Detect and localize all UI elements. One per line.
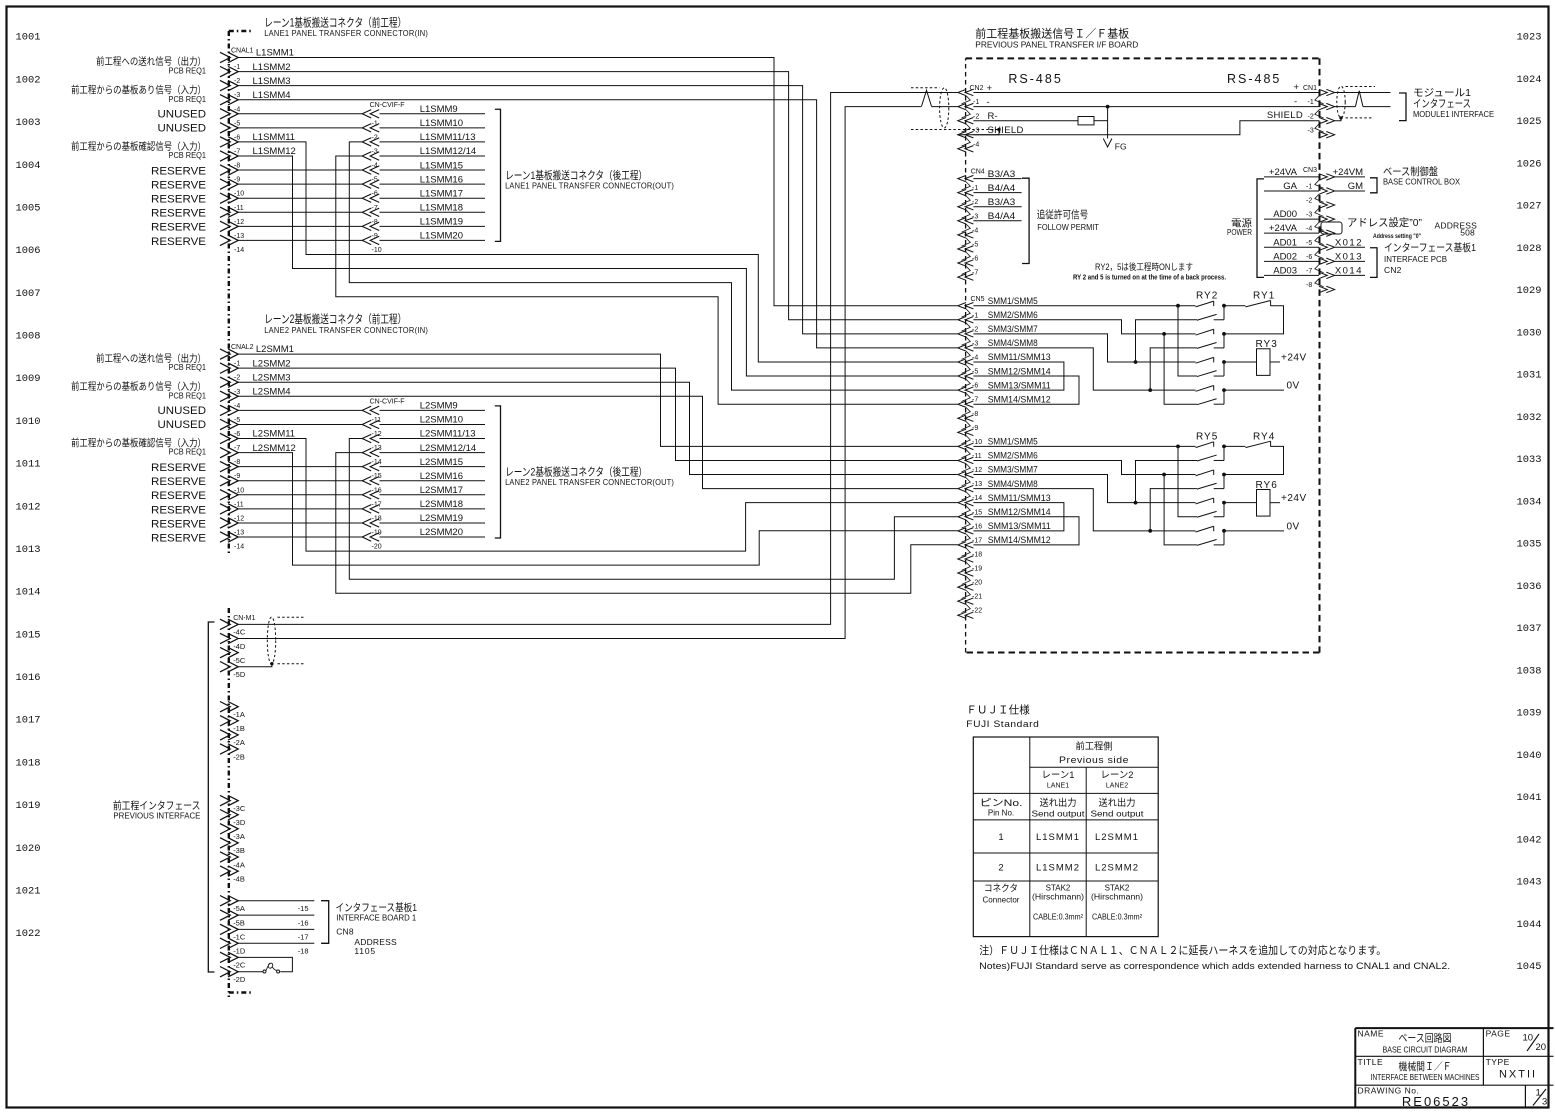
svg-text:UNUSED: UNUSED (158, 405, 207, 417)
svg-text:UNUSED: UNUSED (158, 123, 207, 135)
connector CN2 pin numbers (973, 99, 979, 148)
connector CN4 label (971, 169, 985, 176)
relay RY5 label (1196, 431, 1218, 442)
svg-text:ＦＵＪＩ仕様: ＦＵＪＩ仕様 (966, 703, 1030, 717)
svg-text:-2: -2 (1306, 198, 1312, 205)
shield dashed leads at CN-M1 (270, 617, 305, 665)
svg-text:1034: 1034 (1517, 497, 1542, 508)
svg-text:SHIELD: SHIELD (1267, 110, 1303, 121)
wire CNAL2-10 RESERVE stub (238, 494, 363, 496)
svg-text:送れ出力: 送れ出力 (1099, 797, 1136, 809)
wire CNAL1-13 RESERVE stub (238, 239, 363, 241)
feed wire +24V side a (1136, 320, 1198, 362)
address setting box (1321, 222, 1342, 234)
svg-text:-11: -11 (234, 205, 244, 212)
svg-text:RESERVE: RESERVE (151, 236, 206, 248)
LANE2 header label (264, 312, 428, 335)
svg-text:LANE2: LANE2 (1106, 782, 1128, 789)
svg-text:-2D: -2D (233, 975, 246, 984)
svg-text:1021: 1021 (16, 887, 41, 898)
svg-text:RS-485: RS-485 (1008, 72, 1062, 86)
wire CNAL2-4 UNUSED stub (238, 409, 363, 411)
svg-text:RY3: RY3 (1256, 339, 1278, 350)
svg-text:X012: X012 (1335, 237, 1363, 248)
svg-text:-20: -20 (372, 544, 382, 551)
wire SMM1/SMM5 row to RY5 (973, 445, 1195, 449)
svg-text:-1: -1 (973, 99, 979, 106)
svg-text:-4: -4 (1306, 226, 1312, 233)
svg-text:1022: 1022 (16, 929, 41, 940)
svg-text:-16: -16 (298, 918, 309, 927)
svg-text:CNAL1: CNAL1 (231, 48, 254, 55)
svg-text:-11: -11 (234, 501, 244, 508)
svg-text:-18: -18 (972, 551, 982, 558)
svg-text:TYPE: TYPE (1486, 1057, 1510, 1067)
CN-CVIF-F (LANE2) signal labels (420, 401, 477, 539)
svg-text:-: - (1294, 97, 1297, 108)
svg-text:-12: -12 (234, 515, 244, 522)
svg-text:-1: -1 (372, 120, 378, 127)
svg-text:Send output: Send output (1091, 810, 1145, 819)
svg-text:LANE2 PANEL TRANSFER CONNECTOR: LANE2 PANEL TRANSFER CONNECTOR(IN) (264, 326, 428, 335)
svg-text:1032: 1032 (1517, 413, 1542, 424)
connector CNAL1 pins (220, 52, 238, 245)
svg-text:RE06523: RE06523 (1402, 1094, 1470, 1109)
feed wire row2 down (1164, 334, 1197, 404)
shield dashed leads at CN2 (911, 88, 1001, 135)
svg-text:RESERVE: RESERVE (151, 208, 206, 220)
wire +24V RY6 (1270, 493, 1307, 504)
connector CN1 pins (1315, 89, 1335, 138)
svg-text:-3: -3 (973, 127, 979, 134)
svg-text:1003: 1003 (16, 118, 41, 129)
svg-text:STAK2: STAK2 (1046, 884, 1071, 893)
title block grid (1355, 1028, 1553, 1106)
svg-text:1040: 1040 (1517, 751, 1542, 762)
svg-text:-14: -14 (372, 459, 382, 466)
svg-text:RESERVE: RESERVE (151, 476, 206, 488)
feed wire +24V side b (1150, 489, 1197, 531)
CN3 left signal labels (1269, 167, 1298, 276)
svg-text:-2: -2 (972, 326, 978, 333)
svg-text:+24VA: +24VA (1269, 223, 1298, 234)
svg-text:1028: 1028 (1517, 244, 1542, 255)
svg-text:CN4: CN4 (971, 169, 985, 176)
svg-text:-3: -3 (234, 92, 240, 99)
svg-text:SMM14/SMM12: SMM14/SMM12 (988, 394, 1051, 404)
wire CN-M1 -2C -2D jumper loop (238, 957, 293, 971)
wire L2SMM15 stub (380, 466, 486, 468)
left margin row numbers 1001-1022 (16, 33, 41, 940)
label FG (1115, 142, 1127, 152)
table header Pin No (980, 798, 1023, 818)
svg-text:Pin No.: Pin No. (988, 809, 1014, 818)
svg-text:-1D: -1D (233, 947, 246, 956)
svg-text:SMM1/SMM5: SMM1/SMM5 (988, 437, 1038, 447)
connector CN2 pins (958, 89, 974, 152)
label POWER (1227, 219, 1253, 238)
connector CNAL2 pin numbers (234, 361, 244, 551)
svg-text:INTERFACE BOARD 1: INTERFACE BOARD 1 (336, 913, 416, 923)
svg-text:CN2: CN2 (1384, 265, 1402, 275)
wire CN5-5 to CN5-7 strap (973, 376, 1079, 404)
svg-text:コネクタ: コネクタ (984, 884, 1018, 895)
svg-text:-5: -5 (1306, 240, 1312, 247)
svg-text:+24VA: +24VA (1269, 167, 1298, 178)
svg-text:1033: 1033 (1517, 455, 1542, 466)
svg-text:-3: -3 (234, 389, 240, 396)
wire SMM4/SMM8 row to RY2 (973, 348, 1195, 392)
connector CN-CVIF-F (LANE1) pins (362, 110, 379, 245)
svg-text:1045: 1045 (1517, 962, 1542, 973)
svg-text:SMM3/SMM7: SMM3/SMM7 (988, 324, 1038, 334)
svg-text:-12: -12 (372, 431, 382, 438)
wire L1SMM12 from CNAL1-7 to CN5 (238, 156, 958, 376)
twisted pair crossover at CN2 (831, 90, 958, 106)
svg-text:-13: -13 (972, 481, 982, 488)
svg-text:-1C: -1C (233, 933, 246, 942)
title block PAGE cell (1486, 1029, 1546, 1054)
svg-text:CN3: CN3 (1303, 167, 1317, 174)
svg-text:-5C: -5C (233, 656, 246, 665)
svg-text:TITLE: TITLE (1358, 1057, 1384, 1067)
svg-text:L1SMM1: L1SMM1 (1036, 832, 1080, 843)
svg-text:RESERVE: RESERVE (151, 180, 206, 192)
svg-text:RY5: RY5 (1196, 431, 1218, 442)
title block TYPE cell (1486, 1057, 1537, 1081)
svg-text:-5A: -5A (233, 904, 245, 913)
svg-text:-2: -2 (234, 375, 240, 382)
svg-text:(Hirschmann): (Hirschmann) (1091, 893, 1143, 902)
svg-text:SMM4/SMM8: SMM4/SMM8 (988, 338, 1038, 348)
wire L2SMM10 stub (380, 423, 486, 425)
wire CNAL1-5 UNUSED stub (238, 127, 363, 129)
relay RY1 contact and loop (1224, 301, 1284, 334)
svg-text:レーン2基板搬送コネクタ（前工程）: レーン2基板搬送コネクタ（前工程） (264, 312, 406, 326)
svg-text:アドレス設定”0”: アドレス設定”0” (1347, 216, 1422, 229)
wire SMM2/SMM6 row to RY5 (973, 460, 1195, 476)
svg-text:-7: -7 (972, 270, 978, 277)
wire L1SMM17 stub (380, 197, 486, 199)
svg-text:-2: -2 (234, 78, 240, 85)
svg-text:AD03: AD03 (1273, 265, 1297, 276)
svg-text:1014: 1014 (16, 588, 41, 599)
svg-text:-4: -4 (972, 227, 978, 234)
cable shield ellipse at CN2 (940, 88, 949, 128)
svg-text:-6: -6 (234, 431, 240, 438)
svg-text:Send output: Send output (1032, 810, 1086, 819)
svg-text:1035: 1035 (1517, 540, 1542, 551)
svg-text:PCB REQ1: PCB REQ1 (169, 150, 207, 160)
wire L2SMM20 stub (380, 536, 486, 538)
wire L2SMM16 stub (380, 480, 486, 482)
svg-text:-1: -1 (972, 185, 978, 192)
svg-text:-9: -9 (372, 233, 378, 240)
wires CN-M1 -5A to -1D to interface board (238, 901, 315, 944)
svg-text:LANE2 PANEL TRANSFER CONNECTOR: LANE2 PANEL TRANSFER CONNECTOR(OUT) (505, 478, 674, 487)
bracket PREVIOUS INTERFACE (208, 622, 214, 972)
svg-text:SMM1/SMM5: SMM1/SMM5 (988, 296, 1038, 306)
svg-text:RESERVE: RESERVE (151, 194, 206, 206)
svg-text:X014: X014 (1335, 265, 1363, 276)
svg-text:-18: -18 (298, 947, 309, 956)
table header LANE1 (1042, 770, 1075, 790)
wire CN1 shield stub (1335, 118, 1341, 121)
LANE1 header label (264, 16, 428, 39)
resistor R terminator (1078, 117, 1094, 125)
svg-text:SMM12/SMM14: SMM12/SMM14 (988, 366, 1051, 376)
LANE1 OUT connector bracket (495, 109, 501, 241)
wire L1SMM12/14 from CN-CVIF-F-3 to CN5 (336, 156, 958, 404)
svg-text:CN-CVIF-F: CN-CVIF-F (370, 398, 405, 405)
svg-text:1018: 1018 (16, 758, 41, 769)
svg-text:CN8: CN8 (336, 926, 354, 936)
svg-text:508: 508 (1460, 228, 1475, 238)
connector CN-CVIF-F (LANE2) pins (362, 406, 379, 541)
wire L1SMM1 from CNAL1-0 to CN5 (238, 58, 958, 306)
svg-text:FOLLOW PERMIT: FOLLOW PERMIT (1037, 222, 1099, 232)
svg-text:-2B: -2B (233, 752, 245, 761)
table header Send output 2 (1091, 797, 1145, 819)
connector CN-CVIF-F (LANE2) pin numbers (372, 417, 382, 551)
svg-text:L2SMM2: L2SMM2 (1095, 862, 1139, 873)
svg-text:PREVIOUS INTERFACE: PREVIOUS INTERFACE (113, 811, 200, 821)
svg-text:3: 3 (1542, 1097, 1547, 1108)
CNAL2 signal name labels (253, 344, 296, 454)
svg-text:-10: -10 (972, 439, 982, 446)
wire L1SMM16 stub (380, 183, 486, 185)
LANE2 annotation panel-confirm signal (71, 437, 206, 457)
wire SMM1/SMM5 row to RY2 (973, 304, 1195, 308)
svg-text:1006: 1006 (16, 246, 41, 257)
svg-text:-6: -6 (372, 191, 378, 198)
CN4 signal labels B3/A3 B4/A4 (988, 169, 1016, 222)
svg-text:-4B: -4B (233, 874, 245, 883)
svg-text:SMM2/SMM6: SMM2/SMM6 (988, 451, 1038, 461)
svg-text:-2: -2 (1308, 113, 1314, 120)
bracket MODULE1 INTERFACE (1399, 93, 1406, 121)
svg-text:-7: -7 (234, 445, 240, 452)
svg-text:前工程基板搬送信号Ｉ／Ｆ基板: 前工程基板搬送信号Ｉ／Ｆ基板 (975, 27, 1129, 41)
connector CNAL1 label (231, 48, 254, 55)
wire L1SMM10 stub (380, 127, 486, 129)
bracket FOLLOW PERMIT (1022, 178, 1029, 263)
svg-text:PAGE: PAGE (1486, 1029, 1511, 1039)
svg-text:1007: 1007 (16, 289, 41, 300)
svg-text:-8: -8 (372, 219, 378, 226)
svg-text:-3: -3 (372, 148, 378, 155)
svg-text:CNAL2: CNAL2 (231, 344, 254, 351)
label PREVIOUS INTERFACE (113, 799, 201, 821)
svg-text:レーン1基板搬送コネクタ（前工程）: レーン1基板搬送コネクタ（前工程） (264, 16, 406, 30)
shield dashed leads at CN1 (1339, 87, 1375, 120)
connector CN3 pins (1315, 174, 1335, 293)
connector CNAL1 edge (dash-dot) (229, 31, 252, 556)
svg-text:1012: 1012 (16, 502, 41, 513)
svg-text:-4: -4 (972, 354, 978, 361)
svg-text:-9: -9 (234, 177, 240, 184)
svg-text:-19: -19 (972, 566, 982, 573)
bracket INTERFACE PCB (1370, 248, 1377, 278)
label RS-485 right (1227, 72, 1281, 86)
svg-text:1010: 1010 (16, 417, 41, 428)
LANE2 annotation send signal (96, 352, 206, 372)
svg-text:PCB REQ1: PCB REQ1 (169, 447, 207, 457)
wire L2SMM1 from CNAL2-0 to CN5 (238, 354, 958, 446)
relay RY4 contact and loop (1224, 441, 1284, 474)
relay coil RY3 (1224, 339, 1278, 375)
svg-text:PREVIOUS PANEL TRANSFER I/F BO: PREVIOUS PANEL TRANSFER I/F BOARD (975, 40, 1138, 50)
relay RY1 label (1253, 291, 1275, 302)
label INTERFACE BOARD 1 (336, 901, 418, 956)
svg-text:-17: -17 (298, 933, 309, 942)
svg-text:-4: -4 (234, 106, 240, 113)
svg-text:-2A: -2A (233, 738, 245, 747)
wire L2SMM18 stub (380, 508, 486, 510)
connector CNAL2 pins (220, 349, 238, 542)
LANE2 annotation panel-present signal (71, 380, 206, 400)
svg-text:CN-M1: CN-M1 (233, 615, 255, 622)
svg-text:送れ出力: 送れ出力 (1040, 797, 1077, 809)
title block NAME cell (1358, 1029, 1468, 1055)
svg-text:UNUSED: UNUSED (158, 109, 207, 121)
label address setting (1347, 216, 1477, 240)
svg-text:+: + (1294, 82, 1300, 93)
svg-text:RY 2 and 5 is turned on at the: RY 2 and 5 is turned on at the time of a… (1073, 274, 1226, 281)
svg-text:-5: -5 (234, 120, 240, 127)
svg-text:RY1: RY1 (1253, 291, 1275, 302)
svg-text:RY4: RY4 (1253, 431, 1275, 442)
svg-text:SMM11/SMM13: SMM11/SMM13 (988, 352, 1051, 362)
wire L2SMM12/14 from CN-CVIF-F-3 to CN5 (336, 453, 958, 594)
wire R- with terminator resistor (973, 120, 1107, 122)
svg-text:PCB REQ1: PCB REQ1 (169, 94, 207, 104)
wire CN5-4 to CN5-6 strap (973, 362, 1064, 390)
svg-text:1042: 1042 (1517, 835, 1542, 846)
svg-text:1013: 1013 (16, 545, 41, 556)
wire L2SMM3 from CNAL2-2 to CN5 (238, 382, 958, 474)
table row pin 1 (998, 832, 1139, 843)
wire SMM3/SMM7 row to RY2 (973, 334, 1195, 364)
svg-text:Previous side: Previous side (1059, 755, 1129, 766)
svg-text:-14: -14 (234, 247, 244, 254)
svg-text:SMM11/SMM13: SMM11/SMM13 (988, 493, 1051, 503)
label FOLLOW PERMIT (1037, 208, 1099, 232)
wire CN5-15 to CN5-17 strap (973, 517, 1079, 545)
CN-CVIF-F (LANE1) signal labels (420, 104, 477, 242)
svg-text:RESERVE: RESERVE (151, 532, 206, 544)
svg-text:-2: -2 (972, 199, 978, 206)
connector CN1 labels (1267, 82, 1317, 121)
svg-text:-20: -20 (972, 580, 982, 587)
svg-text:1031: 1031 (1517, 371, 1542, 382)
wire CNAL1-10 RESERVE stub (238, 197, 363, 199)
svg-text:RY6: RY6 (1256, 480, 1278, 491)
svg-text:2: 2 (998, 862, 1003, 873)
wire RS-485 - CN2 to CN1 (973, 105, 1319, 109)
svg-text:-5: -5 (972, 241, 978, 248)
svg-text:-12: -12 (972, 467, 982, 474)
svg-text:1027: 1027 (1517, 202, 1542, 213)
wire RS-485 + CN2 to CN1 (973, 92, 1319, 94)
svg-text:BASE CONTROL BOX: BASE CONTROL BOX (1383, 177, 1460, 187)
wire L2SMM4 from CNAL2-3 to CN5 (238, 396, 958, 488)
wire L1SMM20 stub (380, 239, 486, 241)
svg-text:GM: GM (1348, 181, 1363, 192)
PREVIOUS PANEL TRANSFER I/F BOARD dashed box (966, 58, 1320, 652)
wire +24V RY3 (1270, 352, 1307, 363)
svg-text:1044: 1044 (1517, 920, 1542, 931)
label RS-485 left (1008, 72, 1062, 86)
connector CN-CVIF-F (LANE2) label (370, 398, 405, 405)
svg-text:-1: -1 (234, 64, 240, 71)
svg-text:-11: -11 (372, 417, 382, 424)
connector CN3 label (1303, 167, 1317, 174)
connector CNAL2 label (231, 344, 254, 351)
CN5 signal labels (988, 296, 1051, 545)
svg-text:-11: -11 (972, 453, 982, 460)
svg-text:1041: 1041 (1517, 793, 1542, 804)
connector CN-M1 pin numbers (233, 628, 246, 984)
connector CN-CVIF-F (LANE1) pin numbers (372, 120, 382, 254)
svg-text:PCB REQ1: PCB REQ1 (169, 362, 207, 372)
wire CNAL2-9 RESERVE stub (238, 480, 363, 482)
svg-text:-8: -8 (972, 411, 978, 418)
svg-text:CN2: CN2 (970, 85, 984, 92)
svg-text:-7: -7 (972, 397, 978, 404)
svg-text:-3: -3 (1308, 127, 1314, 134)
svg-text:-6: -6 (1306, 254, 1312, 261)
svg-text:RY2，5は後工程時ONします: RY2，5は後工程時ONします (1095, 261, 1193, 272)
wire CNAL2-13 RESERVE stub (238, 536, 363, 538)
svg-text:-9: -9 (234, 473, 240, 480)
svg-text:+24V: +24V (1281, 493, 1307, 504)
svg-text:X013: X013 (1335, 251, 1363, 262)
CNAL1 signal name labels (253, 48, 296, 158)
wire CNAL1-12 RESERVE stub (238, 225, 363, 227)
relay RY2 contacts (1196, 301, 1226, 405)
svg-text:1036: 1036 (1517, 582, 1542, 593)
wire L1SMM11 from CNAL1-6 to CN5 (238, 142, 958, 362)
svg-text:SMM14/SMM12: SMM14/SMM12 (988, 535, 1051, 545)
svg-text:LANE1 PANEL TRANSFER CONNECTOR: LANE1 PANEL TRANSFER CONNECTOR(IN) (264, 29, 428, 38)
svg-text:-3A: -3A (233, 832, 245, 841)
note RY2 RY5 back process (1073, 261, 1226, 282)
svg-text:1023: 1023 (1517, 33, 1542, 44)
svg-text:-4C: -4C (233, 628, 246, 637)
svg-text:SMM3/SMM7: SMM3/SMM7 (988, 465, 1038, 475)
svg-text:-3: -3 (1306, 212, 1312, 219)
LANE2 annotation RESERVE pins (151, 462, 206, 544)
wire CN-M1 -4D to CN2 - (RS-485 -) (238, 107, 921, 639)
svg-text:-14: -14 (234, 544, 244, 551)
relay RY2 label (1196, 291, 1218, 302)
svg-text:-19: -19 (372, 530, 382, 537)
svg-text:-1: -1 (972, 312, 978, 319)
svg-text:-6: -6 (234, 134, 240, 141)
svg-text:LANE1: LANE1 (1047, 782, 1069, 789)
label BASE CONTROL BOX (1383, 165, 1460, 187)
wire L2SMM11/13 from CN-CVIF-F-2 to CN5 (349, 439, 957, 580)
svg-text:-13: -13 (234, 530, 244, 537)
svg-text:1009: 1009 (16, 374, 41, 385)
wire CNAL2-8 RESERVE stub (238, 466, 363, 468)
svg-text:レーン1: レーン1 (1042, 770, 1075, 781)
svg-text:レーン2基板搬送コネクタ（後工程）: レーン2基板搬送コネクタ（後工程） (505, 465, 647, 479)
wire L2SMM2 from CNAL2-1 to CN5 (238, 368, 958, 460)
svg-text:-18: -18 (372, 515, 382, 522)
connector CN4 pin numbers (972, 185, 978, 276)
